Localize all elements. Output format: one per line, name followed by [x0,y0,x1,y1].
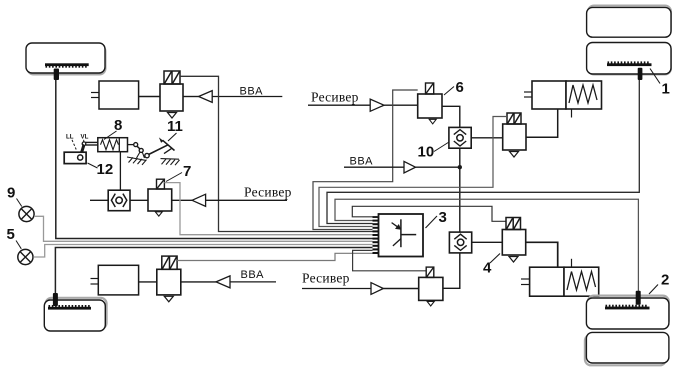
wire solenoid 7 to ECU [164,183,372,235]
svg-text:10: 10 [418,144,435,161]
flow triangle mid reservoir [192,194,206,206]
svg-text:VL: VL [81,133,89,140]
shuttle valve 4 circuit body [449,232,471,253]
leader label 4 [490,254,500,264]
wire valve FR to chamber FR [526,109,558,137]
wire lamp 9 to ECU [34,216,373,241]
wire solenoid rear-left to ECU [177,253,372,260]
svg-text:7: 7 [183,163,191,180]
wheel rear-right upper tire [586,296,669,329]
spring brake chamber rear-right [530,267,599,296]
sensor ring rear-right [605,305,650,310]
linkage joint circle a [134,143,138,147]
linkage joint circle c [145,153,149,157]
junction dot BBA [458,165,462,169]
leader LL dashed [72,140,76,150]
svg-text:11: 11 [167,118,183,135]
wheel front-left tire [26,43,106,75]
wire lamp 5 to ECU [33,245,372,258]
solenoid valve 4 [506,218,521,230]
leader label 12 [88,163,98,168]
svg-text:12: 12 [97,161,114,178]
linkage long link to lever 11 [149,145,169,155]
exhaust rear supply valve [427,302,434,307]
wire sensor 2 from ECU [335,199,638,291]
wire valve front-left to BBA triangle [183,96,199,98]
valve 6 body [418,94,442,118]
solenoid rear supply valve [426,267,434,277]
linkage link a-b [137,146,140,149]
wire sensor 1 to ECU bracket [327,80,639,224]
line bottom BBA [230,281,276,283]
solenoid front-left [164,71,180,84]
solenoid rear-left [162,256,177,269]
lever 11 [159,137,175,153]
ECU 3 body [379,214,424,257]
sensor front-right pin [638,68,643,80]
solenoid front-right [507,113,521,124]
valve 7 body [148,189,172,211]
exhaust valve 4 [509,257,518,263]
brake chamber rear-left [98,265,138,295]
linkage stub from valve 8 [128,144,134,146]
spring brake chamber front-right [532,81,602,109]
exhaust valve 6 [429,119,436,124]
support legs under joint b [137,152,145,158]
leader label 6 [444,87,454,96]
solenoid valve 6 [426,83,434,94]
svg-text:BBA: BBA [241,269,265,281]
wire sensor rear-left to ECU [55,248,372,294]
ports chamber front-left [91,93,99,98]
wheel rear-left tire [44,298,106,331]
ports chamber rear-left [91,279,99,285]
wire chamber to valve rear-left [139,281,157,283]
wire mid BBA to junction [416,166,460,168]
leader label 1 [650,69,660,84]
wire valve rear-left to BBA triangle [181,281,216,283]
modulator valve rear-left body [157,269,181,295]
wire valve 6 solenoid to ECU bracket [313,90,418,230]
svg-text:BBA: BBA [350,156,374,168]
rear supply valve body [419,277,443,300]
flow triangle mid BBA [404,161,416,173]
pedal lever [81,145,84,156]
svg-text:LL: LL [66,133,74,140]
leader label 9 [17,199,22,207]
leader label 8 [104,131,117,140]
flow triangle bottom BBA [216,276,230,288]
wire triangle to rear valve [383,288,418,290]
wire solenoid front-left to ECU [180,76,373,231]
lamp 5 [18,249,33,264]
valve 10 body [449,127,471,148]
pedal 12 plate [64,152,86,163]
ports chamber front-right [524,92,572,118]
wire valve8 to shuttle valve [119,152,121,191]
wire valve 7 to reservoir triangle [172,199,192,201]
svg-text:1: 1 [662,81,670,98]
linkage joint circle b [139,148,143,152]
leader label 5 [16,241,21,249]
line mid reservoir [206,199,287,201]
pedal rod [82,142,98,146]
ground hatch under linkage [127,157,147,165]
valve 4 body [502,230,525,256]
leader label 10 [434,142,449,152]
svg-text:Ресивер: Ресивер [302,271,350,286]
stub left of shuttle valve [90,199,108,201]
shuttle valve body [108,190,130,211]
sensor ring front-left (toothed bar) [45,63,89,67]
wire valve 10 output to valve FR [471,137,503,139]
svg-text:2: 2 [661,272,669,289]
leader VL dashed [83,140,84,150]
sensor ring front-right [607,61,652,66]
wire solenoid FR to ECU bracket [319,117,507,227]
line BBA mid [344,166,404,168]
svg-text:9: 9 [7,185,15,202]
wire valve 4 to chamber RR [526,242,558,267]
svg-text:BBA: BBA [240,86,264,98]
exhaust front-right valve [510,152,519,158]
line reservoir top [308,104,370,106]
svg-text:Ресивер: Ресивер [311,90,359,105]
svg-text:Ресивер: Ресивер [244,185,292,200]
flow triangle bottom reservoir [371,283,383,295]
ECU pin comb [373,216,379,254]
wire ECU to valve 4 solenoid [352,206,506,221]
wire ECU to rear valve solenoid [353,250,427,270]
brake chamber front-left [99,81,139,109]
wire shuttle valve to valve 7 [130,199,148,201]
wire sensor front-left to ECU [56,80,373,239]
svg-text:6: 6 [456,79,464,96]
modulator valve front-right body [503,124,526,150]
leader label 11 [168,133,177,141]
leader label 7 [166,173,182,182]
wire valve 6 to valve 10 [442,106,460,127]
ports chamber rear-right [521,259,572,285]
flow triangle top reservoir [370,99,384,111]
sensor rear-right pin [636,291,641,305]
leader label 3 [426,216,438,228]
leader label 2 [649,285,658,295]
flow triangle top BBA [199,91,213,103]
wire triangle to valve 6 [384,104,418,106]
sensor front-left pin [54,69,59,81]
sensor ring rear-left [48,305,91,310]
wire shuttle to valve 4 [472,241,503,243]
wire valve 10 to mid junction [459,148,461,232]
line reservoir bottom [302,288,371,290]
solenoid valve 7 [157,179,165,189]
exhaust valve 7 [155,212,162,216]
sensor rear-left pin [53,293,58,306]
svg-text:3: 3 [439,209,447,226]
exhaust rear-left valve [164,296,173,302]
modulator valve front-left body [160,84,183,111]
wheel front-right lower tire [587,43,671,75]
brake valve 8 body [98,138,128,152]
lamp 9 [19,206,34,221]
wheel front-right upper tire [587,6,671,38]
ground hatch under lever 11 [161,159,180,166]
svg-text:5: 5 [7,226,15,243]
wire junction to shuttle bottom [443,253,460,288]
wheel rear-right lower tire [585,332,669,365]
wire chamber to valve front-left [139,96,160,98]
line top BBA [212,96,282,98]
exhaust front-left valve [168,113,177,119]
